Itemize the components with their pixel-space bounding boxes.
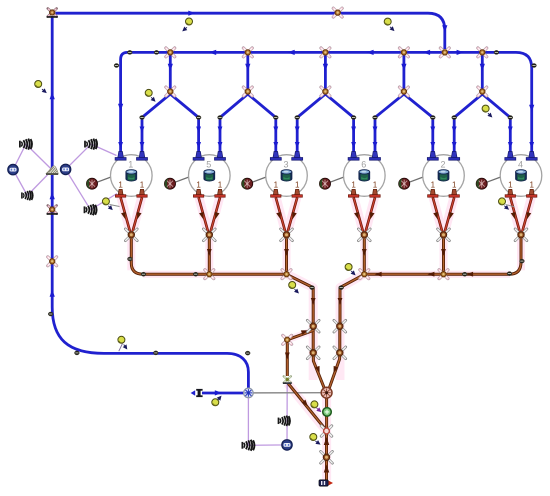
- vessel V5 inlet nozzles: [193, 152, 204, 161]
- nodes at collection joints: [310, 286, 315, 290]
- drain cone valves: [125, 229, 137, 241]
- svg-text:1: 1: [274, 181, 279, 190]
- pipe junction nodes on supply manifold: [127, 50, 132, 54]
- svg-text:1: 1: [140, 181, 145, 190]
- small strike valve above bottom cluster: [283, 376, 292, 384]
- component icon G: [282, 440, 292, 450]
- flow arrow on top header downcomer: [442, 25, 447, 32]
- wire: left collection mid segment: [312, 326, 315, 353]
- flow arrow column 1: [168, 64, 173, 71]
- vessel V6 circle: [344, 155, 386, 197]
- flow arrow column 4: [401, 64, 406, 71]
- vessel V4 outlet nozzles: [505, 189, 515, 197]
- spray nozzle icon B: [84, 139, 97, 150]
- vessel V3 sphere junction: [242, 178, 253, 189]
- spray nozzle icon E (on violet drop): [242, 440, 255, 451]
- link line to vessel 6 sphere: [330, 177, 345, 183]
- lower discharge valve: [321, 451, 333, 463]
- spray nozzle icon A: [19, 139, 32, 150]
- return header arrows: [375, 272, 382, 277]
- vessel V4 sphere junction: [476, 178, 487, 189]
- wire: supply column 4: [402, 52, 405, 91]
- vessel V4 inlet nozzles: [505, 152, 516, 161]
- valve J1 (top left, closed): [47, 9, 58, 18]
- wire: collection drop right: [340, 274, 364, 326]
- wire: bypass diagonal from side valve: [287, 331, 313, 340]
- vessel V6 inlet nozzles: [348, 152, 359, 161]
- svg-text:1: 1: [529, 181, 534, 190]
- svg-text:1: 1: [218, 181, 223, 190]
- wire: discharge tail: [325, 433, 328, 480]
- svg-text:3: 3: [283, 160, 288, 170]
- wire: vessel 2 drain cone pipes: [433, 198, 454, 232]
- link line to vessel 2 sphere: [409, 177, 424, 183]
- grey connector line between bottom junctions: [248, 392, 326, 394]
- wire: vessel 4 drain drop with corner: [510, 239, 522, 275]
- svg-text:1: 1: [508, 181, 513, 190]
- drain cone arrows: [121, 212, 128, 220]
- vessel V3 outlet nozzles: [271, 189, 281, 197]
- link line to vessel 3 sphere: [252, 177, 267, 183]
- svg-text:1: 1: [351, 181, 356, 190]
- wire: branch to vessel 2 left nozzle: [404, 94, 433, 152]
- svg-text:1: 1: [431, 181, 436, 190]
- spray nozzle icon C: [21, 191, 33, 201]
- discharge tail arrows (upward): [324, 437, 330, 445]
- drain drop arrow: [362, 249, 367, 256]
- wire: return header left section: [143, 273, 287, 276]
- wire: converge to hub left: [313, 353, 325, 390]
- flow arrows on supply manifold: [209, 50, 216, 55]
- wire: drain drop to return header: [208, 239, 211, 275]
- link line to vessel 5 sphere: [175, 177, 190, 183]
- vessel V5 circle: [189, 155, 231, 197]
- wire: hub down through control to valve: [325, 396, 328, 429]
- svg-text:6: 6: [361, 160, 366, 170]
- wire: vessel 5 drain cone pipes: [199, 198, 220, 232]
- vessel V3 inlet nozzles: [270, 152, 281, 161]
- svg-text:1: 1: [295, 181, 300, 190]
- assigned pressure icon (I-bar with arrow): [191, 389, 203, 397]
- wire: supply manifold with end drops: [121, 52, 532, 152]
- wire: supply column 3: [324, 52, 327, 91]
- svg-text:1: 1: [196, 181, 201, 190]
- converge arrows: [315, 366, 322, 374]
- drain cone arrows: [354, 212, 361, 220]
- wire: side valve down leg: [286, 342, 289, 376]
- vessel V1 outlet nozzles: [115, 189, 125, 197]
- svg-text:2: 2: [440, 160, 445, 170]
- wire: branch to vessel 3 right nozzle: [297, 94, 325, 152]
- wire: branch to vessel 4 left nozzle: [482, 94, 510, 152]
- wire: right collection mid segment: [338, 326, 341, 353]
- wire: drain drop to return header: [285, 239, 288, 275]
- wire: left riser from bottom loop to top header: [52, 16, 248, 389]
- svg-text:5: 5: [206, 160, 211, 170]
- vessel V1 media icon: [126, 170, 137, 181]
- nodes on left riser and loop: [48, 312, 53, 316]
- vessel V2 inlet nozzles: [427, 152, 438, 161]
- wire: vessel 4 drain cone pipes: [510, 198, 531, 232]
- wire: drain drop to return header: [363, 239, 366, 275]
- wire: return header right section: [364, 273, 509, 276]
- flow arrows on left riser (upward): [50, 92, 55, 99]
- wire: vessel 6 drain cone pipes: [354, 198, 375, 232]
- vessel V6 sphere junction: [320, 178, 331, 189]
- flow arrows on top header: [188, 11, 195, 16]
- wire: supply column 1: [169, 52, 172, 91]
- vessel V2 media icon: [438, 170, 449, 181]
- wire: top supply header: [56, 13, 445, 49]
- drain drop arrow: [441, 249, 446, 256]
- flow arrow on discharge stub: [215, 390, 222, 395]
- side leg arrow: [285, 353, 290, 360]
- drain drop arrow: [207, 249, 212, 256]
- vessel V2 circle: [423, 155, 465, 197]
- wire: branch to vessel 5 left nozzle: [170, 94, 198, 152]
- nodes on return header: [141, 272, 146, 276]
- vessel V5 media icon: [204, 170, 215, 181]
- vessel V5 outlet nozzles: [193, 189, 203, 197]
- spray nozzle icon D: [84, 204, 97, 215]
- wire: vessel 3 drain cone pipes: [276, 198, 297, 232]
- vessel V6 media icon: [359, 170, 370, 181]
- wire: branch to vessel 1 right nozzle: [142, 94, 170, 152]
- svg-text:4: 4: [518, 160, 523, 170]
- vessel V4 circle: [500, 155, 542, 197]
- wire: supply column 5: [481, 52, 484, 91]
- drain drop arrow: [284, 249, 289, 256]
- wire: diagonal to discharge valve: [288, 384, 326, 431]
- drain cone arrows: [276, 212, 283, 220]
- component icon L: [8, 164, 18, 174]
- svg-text:1: 1: [373, 181, 378, 190]
- collection drop arrows: [311, 298, 316, 305]
- drain cone arrows: [511, 212, 518, 220]
- wire: converge to hub right: [329, 353, 340, 390]
- heap/branch icon on riser: [46, 166, 58, 175]
- bypass diagonal arrow: [301, 328, 309, 335]
- svg-text:1: 1: [452, 181, 457, 190]
- vessel V3 media icon: [281, 170, 292, 181]
- vessel V2 outlet nozzles: [428, 189, 438, 197]
- left riser valves: [47, 206, 58, 215]
- wire: vessel 1 drain drop with corner: [131, 239, 143, 275]
- supply manifold valves: [166, 48, 175, 57]
- wire: branch to vessel 2 right nozzle: [454, 94, 482, 152]
- collection valves: [307, 320, 319, 332]
- nodes at branch joints: [140, 116, 145, 120]
- flow arrows on end drops: [118, 104, 123, 111]
- drain cone arrows: [199, 212, 206, 220]
- link line to vessel 1 sphere: [97, 177, 112, 183]
- bottom junction (blue cross): [244, 388, 254, 398]
- vessel V4 media icon: [516, 170, 527, 181]
- bottom pump/outflow icon: [319, 480, 333, 486]
- diagonal to discharge valve arrow: [302, 400, 310, 408]
- component icon R: [60, 164, 70, 174]
- svg-text:1: 1: [128, 160, 133, 170]
- halo shading around drain piping: [121, 196, 142, 231]
- violet link lines, left icon cluster: [13, 144, 117, 210]
- wire: branch to vessel 3 left nozzle: [248, 94, 276, 152]
- vessel V6 outlet nozzles: [348, 189, 358, 197]
- return header valves: [205, 270, 214, 279]
- marker flags (yellow): [35, 81, 42, 88]
- violet link lines, bottom icon cluster: [248, 384, 287, 445]
- wire: vessel 1 drain cone pipes: [121, 198, 142, 232]
- supply mid valves: [166, 87, 175, 96]
- discharge valve (pink ring): [321, 426, 331, 436]
- wire: discharge stub at bottom junction: [202, 392, 244, 395]
- vessel V3 circle: [266, 155, 308, 197]
- control valve (green): [323, 408, 332, 417]
- valve on top header: [333, 8, 342, 17]
- vessel V5 sphere junction: [165, 178, 176, 189]
- flow arrow column 3: [323, 64, 328, 71]
- drain cone arrows: [433, 212, 440, 220]
- wire: collection drop left: [287, 274, 314, 326]
- flow arrow column 5: [480, 64, 485, 71]
- vessel V1 circle: [111, 155, 153, 197]
- wire: branch to vessel 6 left nozzle: [325, 94, 353, 152]
- flow arrow column 2: [245, 64, 250, 71]
- vessel V2 sphere junction: [399, 178, 410, 189]
- link line to vessel 4 sphere: [487, 177, 502, 183]
- svg-text:1: 1: [118, 181, 123, 190]
- wire: branch to vessel 5 right nozzle: [220, 94, 248, 152]
- vessel V1 sphere junction: [87, 178, 98, 189]
- wire: branch to vessel 6 right nozzle: [375, 94, 404, 152]
- vessel V1 inlet nozzles: [115, 152, 126, 161]
- wire: supply column 2: [246, 52, 249, 91]
- spray nozzle icon F (mid violet leg): [278, 416, 290, 426]
- collection hub junction: [321, 387, 332, 398]
- wire: drain drop to return header: [442, 239, 445, 275]
